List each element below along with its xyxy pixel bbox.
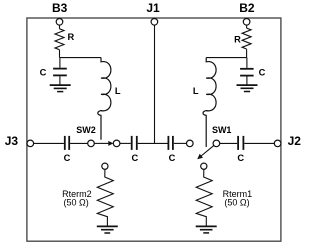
svg-text:(50 Ω): (50 Ω) (63, 198, 88, 208)
svg-text:J2: J2 (288, 134, 302, 148)
svg-text:C: C (237, 153, 244, 163)
svg-text:J3: J3 (5, 134, 19, 148)
svg-text:C: C (40, 68, 47, 78)
svg-text:C: C (131, 153, 138, 163)
svg-text:R: R (234, 34, 241, 44)
svg-text:(50 Ω): (50 Ω) (224, 198, 249, 208)
svg-text:C: C (169, 153, 176, 163)
svg-text:L: L (115, 86, 121, 96)
svg-text:B3: B3 (52, 1, 68, 15)
svg-text:R: R (68, 32, 75, 42)
svg-text:SW2: SW2 (76, 125, 96, 135)
svg-text:C: C (64, 153, 71, 163)
svg-text:L: L (193, 86, 199, 96)
svg-text:SW1: SW1 (212, 125, 232, 135)
svg-text:J1: J1 (146, 1, 160, 15)
svg-text:C: C (259, 68, 266, 78)
svg-text:B2: B2 (239, 1, 255, 15)
